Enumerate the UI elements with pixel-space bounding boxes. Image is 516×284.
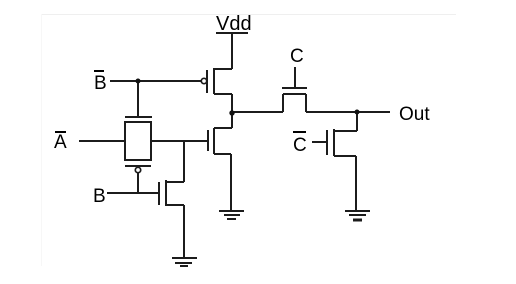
svg-text:A: A (54, 132, 67, 153)
svg-text:Out: Out (399, 104, 430, 125)
svg-text:C: C (290, 46, 304, 67)
svg-text:C: C (293, 135, 307, 156)
svg-text:B: B (93, 186, 106, 207)
svg-text:B: B (94, 73, 107, 94)
svg-text:Vdd: Vdd (216, 13, 252, 35)
